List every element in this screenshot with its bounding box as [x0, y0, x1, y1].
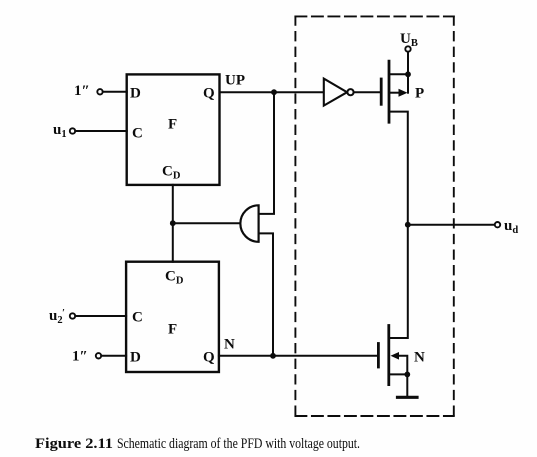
transistor P: [381, 61, 424, 122]
junction ud: [405, 222, 411, 228]
wire UB drop: [407, 52, 409, 93]
junction CD: [170, 220, 176, 226]
caption: [35, 436, 360, 452]
svg-text:F: F: [168, 117, 177, 133]
flip-flop F2: [126, 262, 219, 372]
dashed enclosure: [295, 16, 453, 416]
svg-text:N: N: [414, 350, 425, 366]
svg-text:F: F: [168, 322, 177, 338]
wire inverter-gate: [354, 91, 382, 93]
svg-text:D: D: [130, 350, 141, 366]
wire u2'-C: [75, 315, 126, 317]
svg-text:1″: 1″: [72, 349, 88, 365]
terminal ud: [495, 218, 519, 236]
node N: [224, 337, 235, 353]
svg-text:CD: CD: [162, 164, 181, 182]
and-gate U2: [240, 205, 258, 242]
svg-text:Q: Q: [203, 86, 215, 102]
terminal UB: [400, 31, 418, 52]
svg-text:Schematic diagram of the PFD w: Schematic diagram of the PFD with voltag…: [117, 436, 360, 452]
node UP: [225, 73, 245, 89]
transistor N: [378, 326, 425, 385]
junction N: [270, 353, 276, 359]
inverter U1: [324, 79, 354, 106]
wire P drain to N drain: [389, 112, 408, 338]
svg-text:Figure 2.11: Figure 2.11: [35, 436, 113, 452]
svg-text:UP: UP: [225, 73, 245, 89]
wire AND output to CD: [173, 222, 241, 224]
wire N source to ground: [406, 374, 408, 396]
wire CD1-CD2: [172, 185, 174, 262]
wire N to AND bottom input: [259, 233, 273, 355]
svg-text:1″: 1″: [74, 83, 90, 99]
svg-text:P: P: [415, 86, 424, 102]
svg-text:D: D: [130, 86, 141, 102]
wire Q2 to NMOS gate: [219, 355, 379, 357]
terminal u2': [49, 308, 75, 326]
wire UP to AND top input: [259, 92, 274, 214]
svg-text:CD: CD: [165, 269, 184, 287]
junction UP: [271, 89, 277, 95]
svg-text:u1: u1: [53, 122, 67, 140]
wire 1"-D (top): [103, 91, 127, 93]
junction N source: [404, 372, 410, 378]
wire ud: [408, 224, 495, 226]
svg-text:C: C: [132, 310, 143, 326]
wire u1-C: [75, 130, 126, 132]
terminal 1" (top): [74, 83, 103, 99]
svg-text:C: C: [132, 126, 143, 142]
terminal u1: [53, 122, 75, 140]
wire 1"-D (bottom): [101, 355, 126, 357]
wire Q-inverter: [220, 91, 325, 93]
svg-text:N: N: [224, 337, 235, 353]
svg-text:Q: Q: [203, 350, 215, 366]
svg-text:ud: ud: [504, 218, 518, 236]
terminal 1" (bottom): [72, 349, 101, 365]
junction P source: [405, 71, 411, 77]
flip-flop F1: [127, 74, 220, 184]
svg-text:u2′: u2′: [49, 308, 65, 326]
ground: [398, 396, 418, 399]
